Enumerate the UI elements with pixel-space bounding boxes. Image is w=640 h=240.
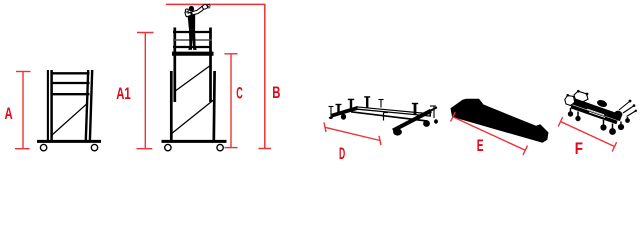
wheel left [40,144,46,150]
lower post right [212,71,216,141]
rail 2 [51,82,90,84]
stub 2 [366,97,368,108]
folded unit F [565,90,637,135]
caster right [423,120,430,127]
dimension A [15,72,31,149]
fingers [206,4,211,8]
folded platform E [451,99,549,143]
stub 0 on end rail [337,105,339,116]
lower post left [170,71,173,141]
left post outer [47,70,49,141]
loop knobs [566,94,569,97]
right arm outline [193,7,204,13]
tower post left [173,28,176,103]
guardrail low [173,46,212,48]
base bar [162,140,227,143]
left arm bent [186,11,190,15]
wheel left [165,144,171,150]
guardrail top [173,31,212,33]
left post inner [50,70,53,141]
dimension A1 [137,33,154,149]
scaffold 2 extended tower [162,28,227,151]
stick knobs [629,100,632,103]
right end block [614,110,624,119]
caster left [341,114,346,120]
right post outer [90,70,92,141]
dimension D [324,123,381,146]
guardrail mid [173,39,212,41]
svg-text:D: D [339,145,345,163]
svg-text:B: B [272,84,280,102]
wheels [568,111,573,116]
dimension B top and right lines [166,4,271,148]
wheel right [217,144,223,150]
scaffold 1 collapsed unit [37,70,101,151]
far long rail tube [356,108,431,115]
fist [185,9,188,12]
svg-text:A: A [5,105,13,123]
left foot pad [329,117,333,119]
svg-text:F: F [575,140,583,158]
mid bracket [383,113,385,121]
svg-text:A1: A1 [116,85,131,103]
base bar [37,140,101,143]
base frame D [329,97,439,136]
person on platform [185,4,210,50]
stub 3 thin [380,100,382,108]
wire loop upper [574,91,588,102]
diagonal brace [52,103,87,135]
left outrigger tip [330,107,332,118]
svg-text:E: E [477,137,484,155]
caster mid big [393,128,402,135]
svg-text:C: C [236,85,243,103]
dimension F [558,117,616,152]
open hand [202,4,209,10]
right sticks up [619,102,636,117]
head [189,6,194,12]
near long rail [351,112,427,121]
stub 1 [350,99,352,110]
dimension E [451,112,528,155]
stub 4 right thick [414,104,417,115]
diagonal upper [175,66,210,92]
lattice slits [587,109,604,115]
wheel stems [571,108,628,130]
wheel right [91,144,97,150]
right post inner [86,70,88,141]
rail 3 [51,93,90,95]
stub 5 right thin hook [433,106,435,118]
platform [172,52,214,56]
body torso and legs [188,12,197,50]
main bundle [574,102,621,119]
diagonal lower [172,100,214,133]
wire loop left [565,96,575,106]
left end rail [332,108,359,116]
right end rail [393,111,431,131]
caster far right small [434,119,438,123]
rail 1 [51,72,90,74]
bundle second bar [571,107,617,123]
top blob [596,99,608,109]
dimension C [225,54,238,148]
tower post right [209,28,212,103]
